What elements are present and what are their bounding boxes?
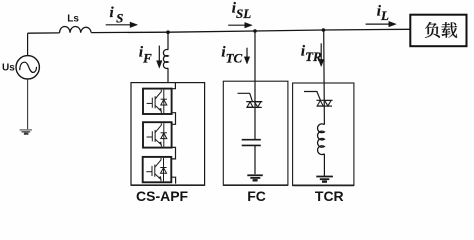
wire top bus (inductor to load) [91, 29, 410, 32]
CS-APF outer box [131, 83, 205, 186]
thyristor pair (TCR) gate lead [304, 92, 320, 100]
svg-text:Us: Us [2, 62, 15, 73]
wire box bottom emphasis CS-APF [131, 184, 205, 186]
inductor (CS-APF output filter coil) [163, 49, 168, 68]
wire FC branch down [254, 31, 256, 140]
FC box [223, 81, 288, 185]
IGBT module cell 2 [143, 122, 172, 147]
wire cell2-cell3 cascade link [172, 147, 176, 159]
ground (TCR) [316, 177, 333, 182]
arrow iSL [228, 22, 252, 28]
svg-text:TCR: TCR [315, 188, 344, 204]
arrow iTC [244, 48, 250, 64]
wire CS-APF branch down [167, 32, 169, 50]
thyristor pair FC [246, 102, 262, 108]
svg-text:iF: iF [139, 45, 152, 66]
arrow iTR [318, 43, 324, 66]
wire capacitor to ground [254, 145, 256, 174]
IGBT module cell 1 [143, 89, 172, 114]
wire cell1 top stub to box top [172, 83, 176, 89]
svg-text:CS-APF: CS-APF [136, 188, 189, 204]
arrow iL [366, 21, 397, 27]
wire box bottom emphasis FC [223, 184, 288, 186]
capacitor FC [242, 140, 261, 146]
label load (fu) [425, 22, 440, 38]
node junction FC tap [253, 29, 257, 33]
IGBT module cell 3 [143, 157, 172, 182]
arrow iS [106, 22, 138, 28]
label load (zai) [441, 22, 457, 38]
svg-text:FC: FC [247, 188, 266, 204]
wire coil to CS-APF box [167, 68, 169, 82]
wire box bottom emphasis TCR [293, 184, 354, 186]
wire cell3 bottom stub to box bottom [172, 177, 176, 183]
thyristor pair (FC) gate lead [238, 93, 253, 101]
ground (source) [20, 130, 32, 134]
svg-text:iTC: iTC [221, 44, 242, 65]
load box [410, 15, 466, 47]
wire source top to bus [27, 33, 29, 55]
inductor Ls [59, 26, 91, 32]
TCR box [293, 83, 354, 185]
svg-text:Ls: Ls [67, 14, 79, 25]
thyristor pair TCR [316, 100, 332, 106]
svg-text:iS: iS [110, 5, 124, 25]
wire source bottom to ground [27, 79, 29, 129]
node junction TCR tap [322, 28, 326, 32]
wire top bus (left segment to inductor) [28, 32, 60, 34]
node junction CS-APF tap [166, 30, 170, 34]
ground (FC) [247, 175, 262, 180]
svg-text:iSL: iSL [232, 1, 251, 21]
wire coil to ground TCR [323, 154, 325, 176]
arrow iF [157, 46, 163, 69]
inductor TCR coil [318, 124, 325, 155]
source voltage Us (AC source circle with sine) [16, 56, 39, 79]
wire TCR branch down [323, 30, 326, 125]
svg-text:iL: iL [377, 4, 389, 24]
wire cell1-cell2 cascade link [172, 113, 176, 125]
